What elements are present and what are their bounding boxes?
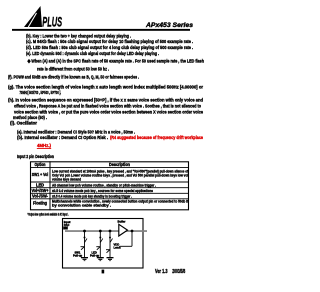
svg-text:(b). Key : Lower the two + key: (b). Key : Lower the two + key changed o… bbox=[26, 33, 131, 39]
table row line 2 bbox=[30, 181, 189, 183]
svg-text:Floating: Floating bbox=[33, 200, 47, 205]
svg-text:◆ When (A) and (A) in the SPC: ◆ When (A) and (A) in the SPC flash rate… bbox=[27, 59, 204, 65]
op-amp buffer U1 bbox=[119, 224, 128, 236]
junction dot 1 bbox=[83, 230, 86, 233]
latch branch wire bbox=[109, 231, 111, 257]
svg-text:SW1 + Vol: SW1 + Vol bbox=[32, 172, 49, 177]
svg-text:LED: LED bbox=[36, 182, 44, 187]
table outer border bbox=[31, 162, 189, 210]
logo triangle A bbox=[24, 6, 42, 27]
svg-text:rate is different from output: rate is different from output 50 low 50 … bbox=[37, 67, 109, 73]
transistor Q1 bbox=[81, 246, 85, 248]
svg-text:(d). LED 50s flash : 50s club: (d). LED 50s flash : 50s club signal out… bbox=[26, 45, 193, 51]
svg-text:Vol-/SW-: Vol-/SW- bbox=[32, 194, 49, 199]
svg-text:offend voice , Response A be p: offend voice , Response A be put and in … bbox=[14, 103, 201, 109]
main wire bbox=[65, 230, 147, 232]
svg-text:Pull-up: Pull-up bbox=[90, 254, 99, 258]
ground 2 bbox=[97, 257, 104, 258]
svg-text:(R4 suggested because of frequ: (R4 suggested because of frequency drift… bbox=[110, 135, 203, 141]
svg-text:4MHz.): 4MHz.) bbox=[37, 143, 51, 149]
svg-text:(g). The voice section length: (g). The voice section length of voice l… bbox=[8, 85, 203, 91]
svg-text:x0.5 0.4 volume mode pcb key ,: x0.5 0.4 volume mode pcb key , sources f… bbox=[52, 188, 154, 193]
svg-text:All channel low pch volume rou: All channel low pch volume routine , sta… bbox=[52, 183, 156, 188]
branch 2 switch bbox=[99, 237, 101, 239]
table row line 5 bbox=[30, 198, 189, 200]
junction dot 3 (latch branch) bbox=[109, 230, 112, 233]
feedback wire vertical bbox=[131, 231, 133, 246]
output junction dot bbox=[131, 230, 134, 233]
table row line 4 bbox=[30, 192, 189, 194]
svg-text:PAD: PAD bbox=[64, 223, 70, 227]
svg-text:PLUS: PLUS bbox=[42, 15, 62, 30]
svg-text:(b). Internal oscillator : Dem: (b). Internal oscillator : Demand CI Opt… bbox=[17, 135, 108, 141]
header rule bbox=[12, 29, 190, 31]
feedback wire horizontal bbox=[120, 245, 133, 247]
latch transistor Q3 bbox=[106, 249, 110, 251]
table column divider bbox=[49, 161, 51, 210]
input pad bbox=[63, 227, 68, 230]
branch 2 wire bbox=[99, 231, 101, 257]
page number bbox=[102, 270, 105, 274]
svg-text:voice section with voice , or: voice section with voice , or put the pu… bbox=[14, 110, 203, 116]
branch 1 wire bbox=[84, 231, 86, 257]
svg-text:70MHz[ 500/700 , 50*500 , 50*7: 70MHz[ 500/700 , 50*500 , 50*700 ]. bbox=[20, 90, 62, 96]
svg-text:Pull-up: Pull-up bbox=[73, 254, 82, 258]
svg-text:(a). Internal oscillator : Dem: (a). Internal oscillator : Demand CI Sty… bbox=[17, 130, 135, 136]
junction dot 2 bbox=[99, 230, 102, 233]
ground 1 bbox=[81, 257, 88, 258]
svg-text:(e). LED dynamic 50d : dynamic: (e). LED dynamic 50d : dynamic club sign… bbox=[26, 51, 159, 57]
ground 3 bbox=[107, 257, 114, 258]
latch switch bbox=[109, 237, 111, 239]
transistor Q2 bbox=[96, 246, 100, 248]
svg-text:(i). Oscillator: (i). Oscillator bbox=[10, 121, 37, 127]
svg-text:Ver 1.3: Ver 1.3 bbox=[155, 269, 168, 275]
svg-text:Description: Description bbox=[109, 162, 130, 167]
table row line 3 bbox=[30, 187, 189, 189]
schematic box frame bbox=[63, 219, 144, 269]
svg-text:(c). M 84Kb flash : 50s club s: (c). M 84Kb flash : 50s club signal outp… bbox=[26, 39, 193, 45]
svg-text:Input 2 pin Description: Input 2 pin Description bbox=[17, 154, 54, 159]
svg-text:volume keys demand: volume keys demand bbox=[52, 177, 81, 182]
svg-text:method place (50) .: method place (50) . bbox=[13, 115, 47, 121]
svg-text:(h). In voice section sequence: (h). In voice section sequence on expres… bbox=[8, 97, 203, 103]
svg-text:2003/5/8: 2003/5/8 bbox=[172, 269, 185, 275]
branch 1 switch bbox=[84, 237, 86, 239]
svg-text:Vol+/SW+: Vol+/SW+ bbox=[32, 188, 49, 193]
svg-text:*Output-low option level avail: *Output-low option level available in IC… bbox=[28, 213, 69, 217]
svg-text:Buffer: Buffer bbox=[118, 220, 126, 224]
svg-text:APx453 Series: APx453 Series bbox=[145, 22, 193, 29]
svg-text:by convolution cable standby .: by convolution cable standby . bbox=[52, 203, 111, 208]
table row line 1 bbox=[30, 167, 189, 169]
svg-text:Option: Option bbox=[35, 162, 46, 167]
logo A aperture slash bbox=[28, 13, 36, 27]
svg-text:(f). POW# and 50dB are directl: (f). POW# and 50dB are directly if be kn… bbox=[8, 75, 139, 81]
